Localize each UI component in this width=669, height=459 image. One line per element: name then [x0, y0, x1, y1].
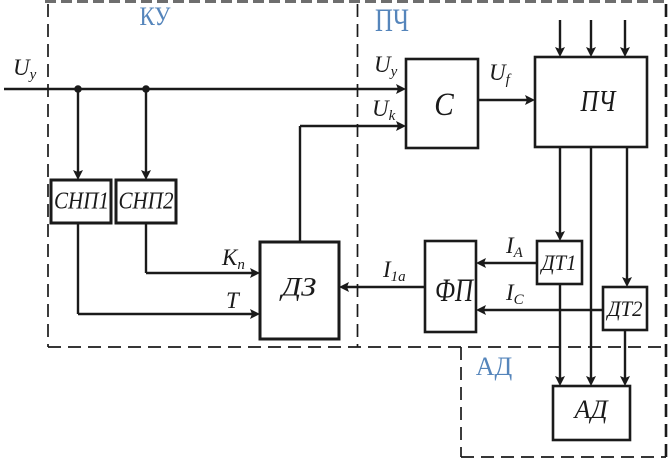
wire: ПЧ output phase B to АД — [586, 147, 596, 386]
svg-text:АД: АД — [572, 395, 608, 424]
svg-text:Uk: Uk — [372, 96, 396, 124]
dashed boundary: bottom edge of АД region — [461, 456, 666, 458]
label Uy (at С input) — [374, 52, 398, 80]
block ПЧ — [535, 57, 647, 147]
label Uy (input, far left) — [13, 55, 37, 83]
svg-text:СНП2: СНП2 — [119, 189, 174, 215]
wire: ДТ2 output to ФП (signal IC) — [476, 305, 603, 315]
block СНП1 — [51, 180, 111, 223]
wire: ПЧ output phase C to ДТ2 — [622, 147, 632, 287]
label I1a (ФП to ДЗ) — [382, 257, 406, 285]
svg-text:ФП: ФП — [435, 273, 475, 309]
wire: supply arrow 1 into ПЧ top — [555, 20, 565, 57]
svg-text:ДЗ: ДЗ — [278, 273, 316, 302]
dashed boundary: top edge of КУ/ПЧ regions — [45, 0, 669, 3]
block ФП — [425, 241, 476, 332]
wire: ПЧ output phase A to ДТ1 — [555, 147, 565, 241]
wire: СНП1 output to ДЗ (signal T) — [78, 223, 260, 319]
svg-text:Uy: Uy — [374, 52, 398, 80]
block ДТ2 — [603, 287, 647, 330]
label IC (ДТ2 to ФП) — [505, 280, 525, 308]
label IA (ДТ1 to ФП) — [505, 233, 524, 261]
wire: С output to ПЧ (signal Uf) — [478, 95, 535, 105]
dashed boundary: bottom edge of КУ/ПЧ, top of АД region — [48, 346, 666, 348]
svg-text:ПЧ: ПЧ — [375, 3, 409, 39]
block СНП2 — [116, 180, 176, 223]
dashed boundary: КУ/ПЧ divider — [357, 4, 359, 347]
svg-text:СНП1: СНП1 — [54, 189, 109, 215]
wire: supply arrow 2 into ПЧ top — [586, 20, 596, 57]
node: junction on Uy bus above СНП2 — [142, 85, 150, 93]
region label КУ — [140, 2, 172, 31]
svg-text:С: С — [434, 87, 454, 123]
label Uf (С to ПЧ) — [489, 60, 512, 88]
svg-text:IC: IC — [505, 280, 525, 308]
label Uk (at С input) — [372, 96, 396, 124]
block ДЗ — [260, 242, 339, 339]
dashed boundary: right edge of ПЧ/АД regions — [665, 4, 668, 457]
label Kn (СНП2 to ДЗ) — [221, 245, 245, 273]
node: junction on Uy bus above СНП1 — [74, 85, 82, 93]
wire: supply arrow 3 into ПЧ top — [620, 20, 630, 57]
block ДТ1 — [537, 241, 582, 284]
wire: junction to СНП2 input — [141, 89, 151, 180]
svg-text:Uy: Uy — [13, 55, 37, 83]
wire: ДТ1 output to ФП (signal IA) — [476, 258, 537, 268]
label T (СНП1 to ДЗ) — [226, 288, 241, 313]
dashed boundary: left edge of КУ region — [47, 4, 49, 347]
wire: junction to СНП1 input — [73, 89, 83, 180]
region label АД — [476, 352, 513, 381]
wire: ДТ2 through-output down to АД — [620, 330, 630, 386]
svg-text:ДТ2: ДТ2 — [606, 296, 643, 321]
wire: ДЗ output up to С (signal Uk) — [300, 121, 406, 242]
region label ПЧ — [375, 3, 409, 39]
svg-text:КУ: КУ — [140, 2, 172, 31]
svg-text:ДТ1: ДТ1 — [540, 250, 577, 275]
svg-text:IA: IA — [505, 233, 524, 261]
svg-text:АД: АД — [476, 352, 513, 381]
svg-text:Uf: Uf — [489, 60, 512, 88]
block АД — [553, 386, 630, 440]
wire: ФП output to ДЗ (signal I1a) — [339, 282, 425, 292]
wire: Uy input bus — [4, 84, 406, 94]
svg-text:T: T — [226, 288, 241, 313]
dashed boundary: left edge of АД region — [460, 347, 462, 457]
svg-text:I1a: I1a — [382, 257, 406, 285]
svg-text:Kn: Kn — [221, 245, 245, 273]
wire: ДТ1 through-output down to АД — [555, 284, 565, 386]
svg-text:ПЧ: ПЧ — [580, 83, 617, 118]
block С — [406, 59, 478, 148]
wire: СНП2 output to ДЗ (signal Kn) — [146, 223, 260, 278]
